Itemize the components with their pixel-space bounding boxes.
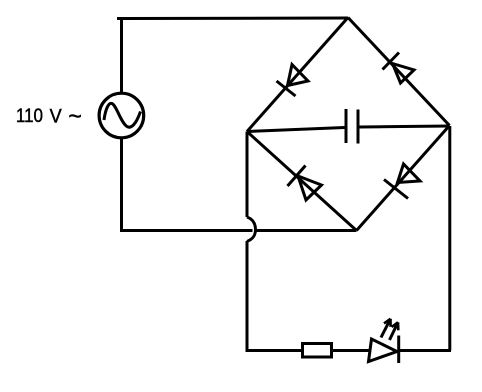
label 110 V ~	[16, 103, 82, 129]
wire load left vertical lower	[246, 241, 249, 351]
svg-text:110: 110	[16, 105, 43, 126]
wire bridge NE diagonal	[348, 18, 450, 126]
svg-text:~: ~	[68, 103, 81, 129]
resistor R1	[303, 344, 332, 358]
svg-text:V: V	[50, 105, 63, 127]
LED D5	[369, 319, 399, 363]
wire top horizontal	[117, 17, 348, 21]
ac source V1	[99, 93, 144, 138]
wire hop (jump over bottom wire)	[247, 217, 256, 242]
diode D1 (upper-left arm)	[277, 65, 309, 97]
diode D3 (lower-left arm)	[288, 166, 322, 201]
capacitor C1	[346, 109, 358, 144]
wire resistor to LED	[332, 349, 372, 352]
wire bridge SE diagonal	[357, 126, 450, 231]
wire bottom horizontal left segment	[120, 229, 253, 232]
wire right vertical	[448, 126, 451, 351]
wire bridge SW diagonal	[247, 132, 357, 231]
wire capacitor left lead	[247, 128, 345, 132]
wire capacitor right lead	[360, 126, 450, 127]
wire load left vertical upper	[246, 132, 249, 218]
diode D2 (upper-right arm)	[383, 53, 415, 84]
wire load bottom left segment	[246, 349, 303, 352]
wire LED to right corner	[399, 349, 451, 352]
wire left vertical upper (source top lead)	[120, 17, 123, 94]
wire left vertical lower (source bottom lead)	[120, 137, 123, 232]
wire bridge NW diagonal	[247, 18, 348, 132]
diode D4 (lower-right arm)	[384, 164, 420, 199]
wire bottom horizontal right segment	[257, 229, 357, 232]
